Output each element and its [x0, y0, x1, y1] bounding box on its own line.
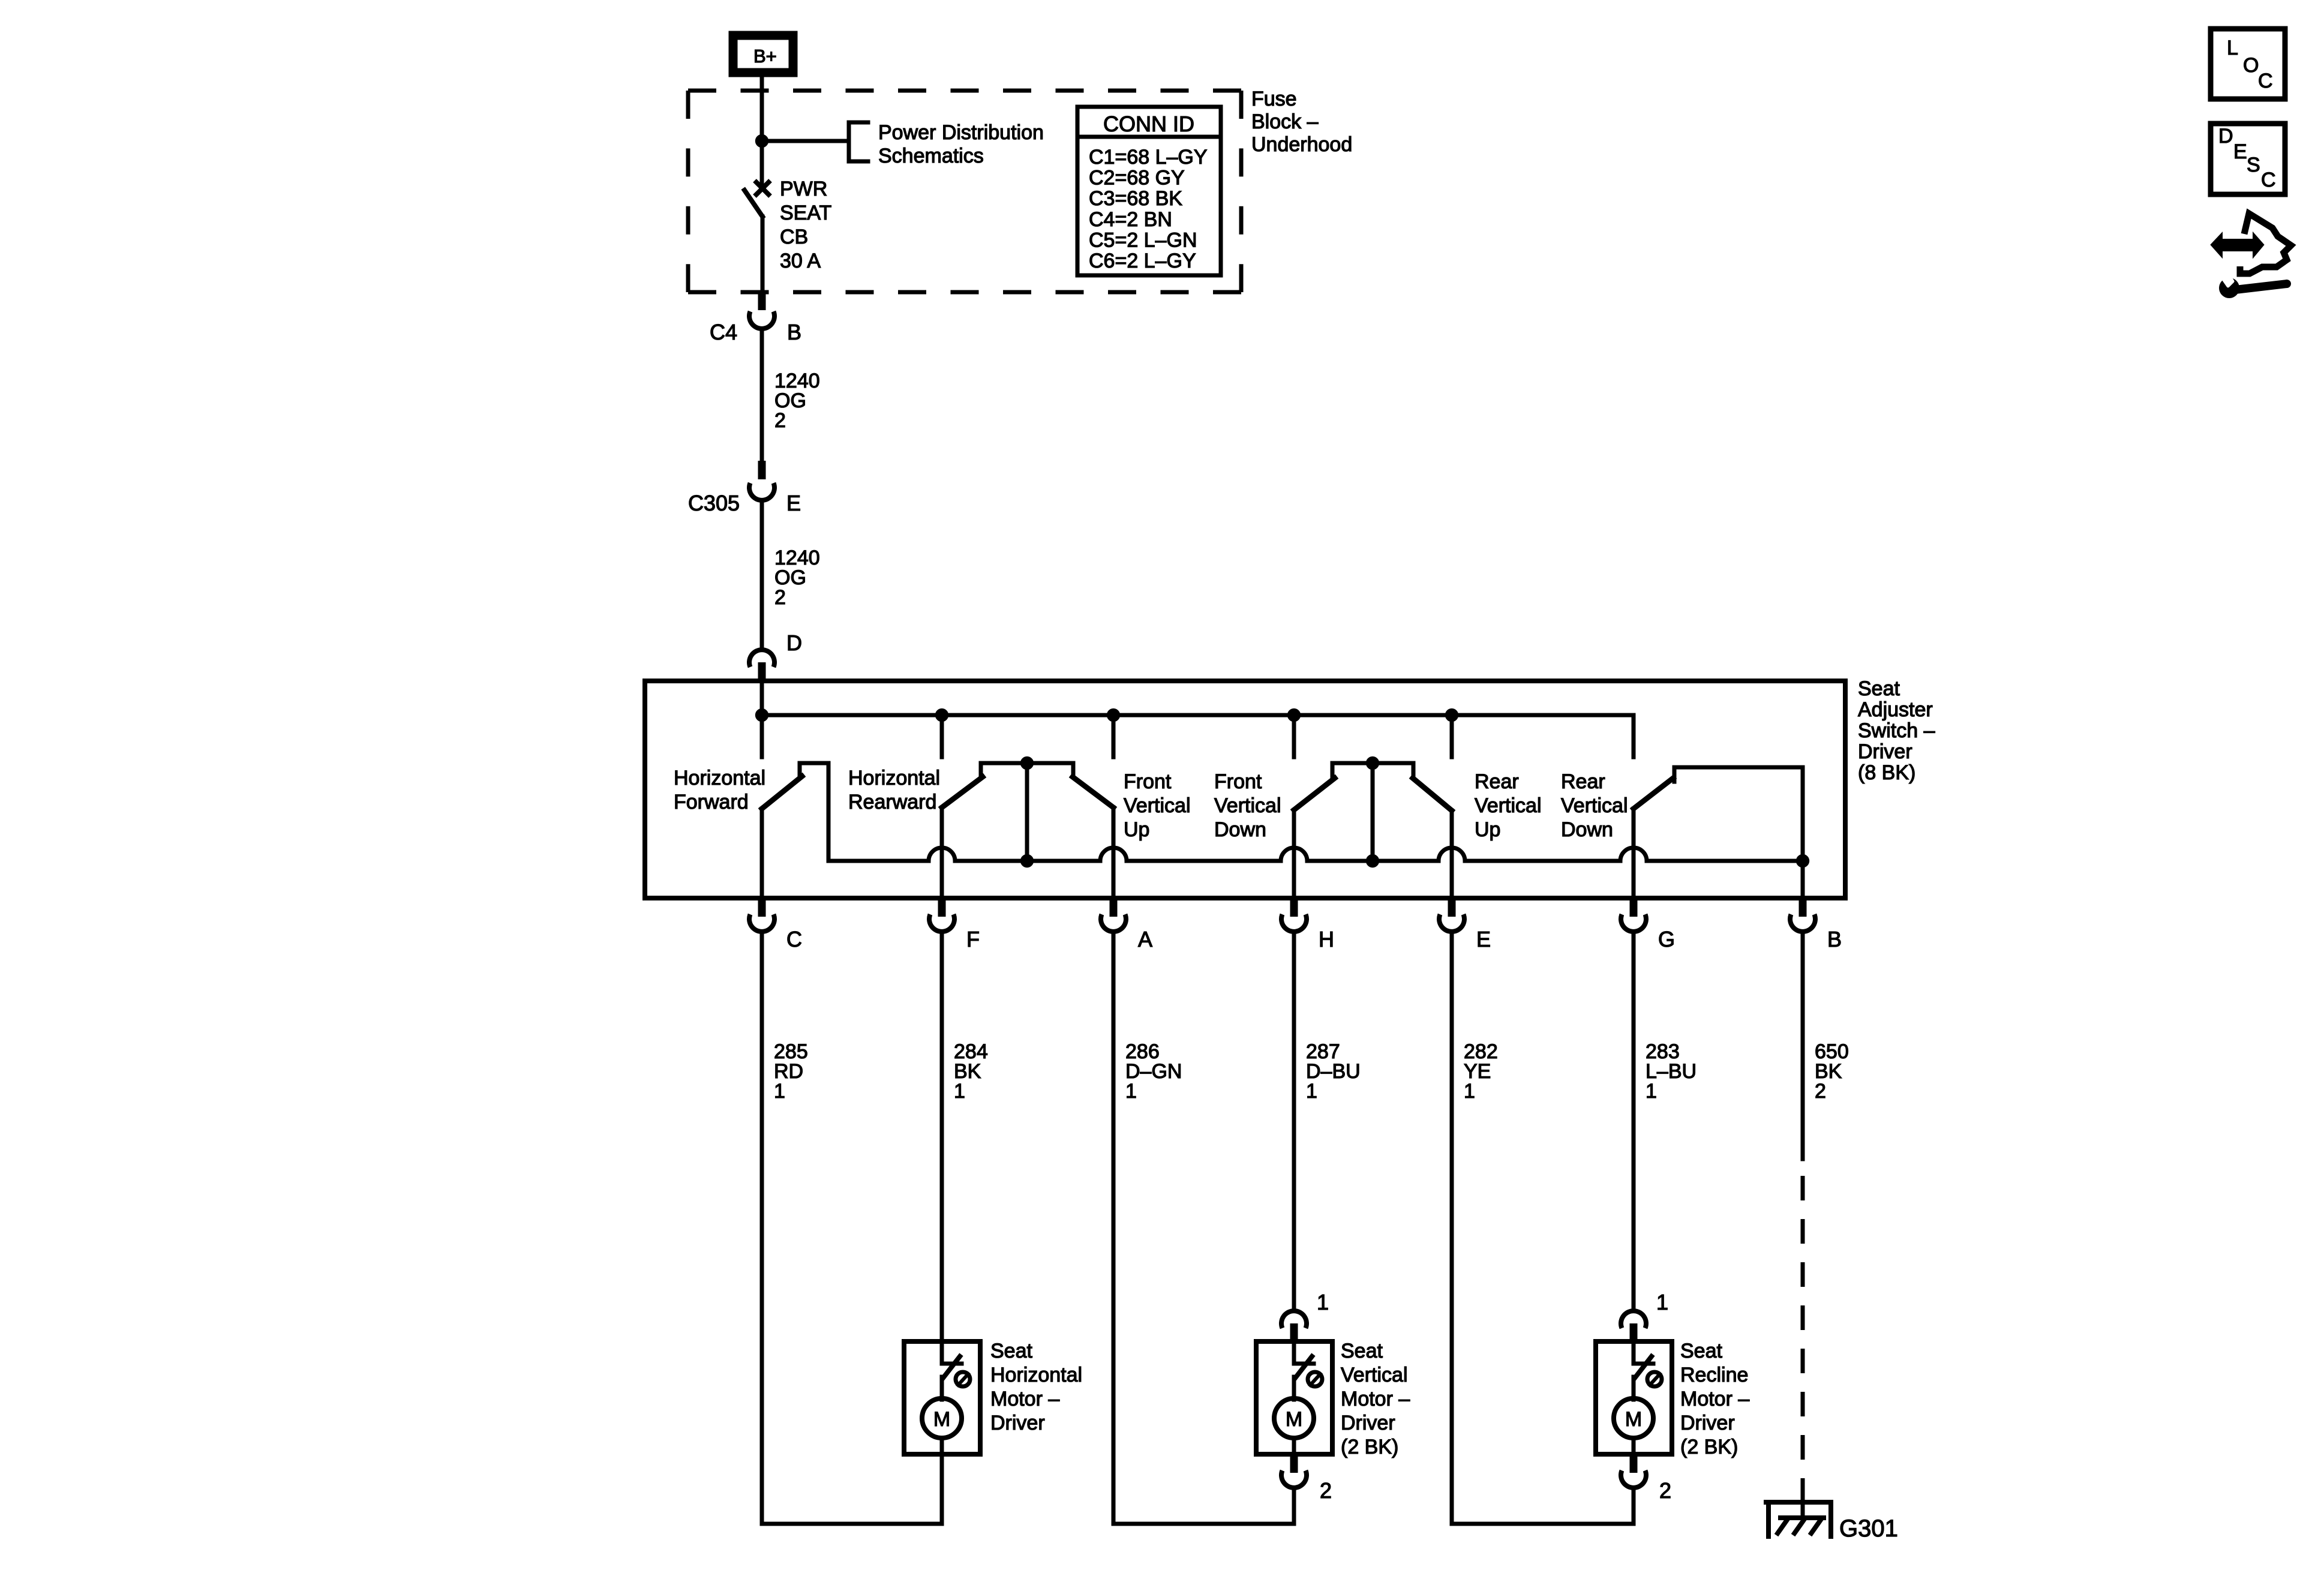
svg-text:Vertical: Vertical — [1341, 1364, 1408, 1386]
switch Horizontal Forward blade — [762, 776, 802, 809]
label Front Vertical Up — [1124, 770, 1191, 841]
wire 286 D-GN pin A down — [1113, 932, 1294, 1524]
svg-text:Horizontal: Horizontal — [848, 767, 940, 789]
svg-text:(2 BK): (2 BK) — [1680, 1436, 1738, 1458]
svg-text:C2=68 GY: C2=68 GY — [1089, 167, 1185, 190]
node pair2 gnd — [1366, 854, 1379, 867]
svg-text:CONN ID: CONN ID — [1103, 112, 1194, 136]
node bus at A — [1107, 709, 1120, 722]
svg-text:C1=68 L–GY: C1=68 L–GY — [1089, 146, 1208, 169]
node pair1 top — [1020, 757, 1034, 770]
svg-text:2: 2 — [774, 586, 786, 609]
svg-text:Driver: Driver — [1680, 1412, 1735, 1434]
svg-text:Power Distribution: Power Distribution — [878, 121, 1044, 144]
svg-text:1: 1 — [1464, 1080, 1475, 1103]
connector 2 motor seat recline motor — [1621, 1454, 1646, 1488]
connector C305 pin E — [749, 461, 774, 500]
wire gnd bus to pin B — [1801, 861, 1805, 898]
ground return bus — [828, 848, 1803, 861]
node bus at C — [755, 709, 768, 722]
connector pin F of switch — [929, 898, 954, 932]
svg-text:Down: Down — [1214, 818, 1266, 841]
svg-text:C: C — [786, 927, 802, 951]
svg-text:Seat: Seat — [1858, 677, 1900, 700]
svg-text:M: M — [1286, 1408, 1302, 1431]
svg-text:Up: Up — [1124, 818, 1149, 841]
wire B+ to junction — [760, 77, 764, 141]
svg-text:Switch –: Switch – — [1858, 719, 1935, 742]
switch1 contact — [800, 763, 828, 861]
svg-text:2: 2 — [1815, 1080, 1826, 1103]
svg-text:Driver: Driver — [1858, 740, 1912, 763]
svg-text:1: 1 — [954, 1080, 965, 1103]
svg-text:PWR: PWR — [780, 178, 827, 200]
B+ stub sw1 — [760, 715, 764, 757]
wire 1240 OG seg2 — [760, 500, 764, 649]
wire 650 BK pin B solid — [1801, 932, 1805, 1159]
node gnd bus to pin B — [1796, 854, 1809, 867]
wire motor1 return — [940, 1454, 944, 1524]
icon adjust-direction with wrench — [2212, 214, 2291, 298]
svg-text:Vertical: Vertical — [1214, 794, 1281, 817]
icon LOC box — [2211, 29, 2285, 99]
switch Horizontal Rearward blade — [942, 777, 983, 807]
svg-text:1: 1 — [1656, 1290, 1668, 1314]
motor box seat horizontal motor — [904, 1341, 980, 1454]
svg-text:SEAT: SEAT — [780, 202, 831, 224]
wire sw1 to pin C — [760, 809, 764, 898]
svg-text:C6=2 L–GY: C6=2 L–GY — [1089, 250, 1196, 272]
wire 287 D-BU pin H to conn — [1292, 932, 1296, 1308]
wire 282 YE pin E down — [1452, 932, 1634, 1524]
label pin C — [786, 927, 802, 951]
label pin E — [1476, 927, 1491, 951]
svg-text:Rear: Rear — [1475, 770, 1519, 793]
wire feed into box — [760, 681, 764, 715]
connector pin B of switch — [1790, 898, 1815, 932]
connector C4 pin B — [749, 292, 774, 329]
switch pair 2-3 contact bar — [981, 763, 1073, 861]
label wire 287 D–BU — [1306, 1040, 1361, 1103]
svg-text:E: E — [786, 491, 801, 515]
B+ stub sw2 — [940, 715, 944, 757]
svg-text:Vertical: Vertical — [1561, 794, 1628, 817]
motor breaker blade seat vertical motor — [1295, 1356, 1312, 1378]
svg-text:S: S — [2247, 154, 2260, 176]
svg-text:1: 1 — [1646, 1080, 1657, 1103]
svg-text:2: 2 — [774, 409, 786, 432]
svg-text:Adjuster: Adjuster — [1858, 698, 1933, 721]
svg-text:H: H — [1319, 927, 1334, 951]
svg-text:Seat: Seat — [990, 1340, 1032, 1362]
svg-text:Horizontal: Horizontal — [674, 767, 765, 789]
svg-text:Vertical: Vertical — [1475, 794, 1542, 817]
svg-text:Underhood: Underhood — [1251, 133, 1352, 156]
wire junction to CB contact — [760, 141, 764, 183]
svg-text:Fuse: Fuse — [1251, 88, 1297, 110]
svg-text:1: 1 — [1317, 1290, 1329, 1314]
label pin A — [1138, 927, 1152, 951]
svg-text:Block –: Block – — [1251, 110, 1319, 133]
wire sw2 to pin F — [940, 807, 944, 898]
svg-text:CB: CB — [780, 226, 808, 248]
seat adjuster switch box — [645, 681, 1845, 898]
svg-text:M: M — [933, 1408, 950, 1431]
connector pin G of switch — [1621, 898, 1646, 932]
motor box seat vertical motor — [1256, 1341, 1332, 1454]
motor internal wire mid seat recline motor — [1632, 1377, 1636, 1400]
svg-text:C5=2 L–GN: C5=2 L–GN — [1089, 229, 1197, 251]
label wire 286 D–GN — [1125, 1040, 1182, 1103]
node bus at H — [1287, 709, 1301, 722]
wire 285 RD pin C down — [762, 932, 942, 1524]
label pin H — [1319, 927, 1334, 951]
svg-text:D: D — [786, 631, 802, 655]
motor internal wire bottom seat horizontal motor — [940, 1438, 944, 1454]
connector 1 motor seat vertical motor — [1281, 1311, 1307, 1341]
svg-text:C4: C4 — [710, 320, 737, 344]
svg-text:2: 2 — [1320, 1478, 1332, 1503]
label PWR SEAT CB 30 A — [780, 178, 831, 272]
motor M circle seat recline motor — [1614, 1398, 1653, 1438]
motor internal wire bottom seat vertical motor — [1292, 1438, 1296, 1454]
motor thermal element seat recline motor — [1647, 1372, 1662, 1386]
svg-text:Seat: Seat — [1680, 1340, 1722, 1362]
label C305 — [688, 491, 740, 515]
label wire 282 YE — [1464, 1040, 1498, 1103]
motor box seat recline motor — [1596, 1341, 1672, 1454]
motor internal wire mid seat vertical motor — [1292, 1377, 1296, 1400]
icon DESC box — [2211, 124, 2285, 194]
svg-text:1: 1 — [1125, 1080, 1137, 1103]
svg-text:L: L — [2227, 37, 2238, 59]
off-page bracket Power Distribution — [849, 122, 868, 161]
ground G301 — [1766, 1488, 1831, 1536]
svg-text:Front: Front — [1124, 770, 1172, 793]
conn table rows — [1089, 146, 1208, 272]
node bus at F — [935, 709, 948, 722]
label pin 2 seat vertical motor — [1320, 1478, 1332, 1503]
svg-text:Forward: Forward — [674, 791, 749, 813]
B+ bus in switch — [762, 715, 1634, 757]
label wire 285 RD — [774, 1040, 808, 1103]
label pin 2 seat recline motor — [1659, 1478, 1671, 1503]
svg-text:Motor –: Motor – — [1341, 1388, 1410, 1410]
motor breaker blade seat horizontal motor — [943, 1356, 960, 1378]
node pair1 gnd — [1020, 854, 1034, 867]
label pin 1 seat recline motor — [1656, 1290, 1668, 1314]
connector pin A of switch — [1101, 898, 1126, 932]
wire sw5 to pin E — [1450, 810, 1454, 898]
B+ stub sw4 — [1292, 715, 1296, 757]
label pin 1 seat vertical motor — [1317, 1290, 1329, 1314]
svg-text:(8 BK): (8 BK) — [1858, 761, 1915, 784]
label pin B — [1827, 927, 1842, 951]
label Seat Adjuster Switch Driver — [1858, 677, 1935, 784]
B+ stub sw5 — [1450, 715, 1454, 757]
motor thermal element seat horizontal motor — [956, 1372, 970, 1386]
motor internal wire top seat horizontal motor — [942, 1341, 962, 1364]
svg-text:Driver: Driver — [1341, 1412, 1395, 1434]
circuit breaker PWR SEAT CB 30 A — [744, 181, 770, 292]
motor label seat horizontal motor — [990, 1340, 1082, 1434]
svg-text:D: D — [2218, 125, 2233, 148]
label Fuse Block Underhood — [1251, 88, 1352, 156]
svg-text:2: 2 — [1659, 1478, 1671, 1503]
connector pin H of switch — [1281, 898, 1307, 932]
svg-text:Up: Up — [1475, 818, 1500, 841]
svg-text:E: E — [1476, 927, 1491, 951]
label wire 284 BK — [954, 1040, 988, 1103]
svg-text:M: M — [1625, 1408, 1642, 1431]
wire 283 L-BU pin G to conn — [1632, 932, 1636, 1308]
svg-text:B+: B+ — [753, 46, 777, 67]
svg-text:Vertical: Vertical — [1124, 794, 1191, 817]
motor label seat vertical motor — [1341, 1340, 1410, 1458]
wire sw3 to pin A — [1112, 807, 1116, 898]
motor internal wire top seat vertical motor — [1294, 1341, 1314, 1364]
label Front Vertical Down — [1214, 770, 1281, 841]
wire 1240 OG seg1 — [760, 329, 764, 461]
svg-text:(2 BK): (2 BK) — [1341, 1436, 1398, 1458]
wire tap to power distribution — [762, 139, 849, 143]
connector 1 motor seat recline motor — [1621, 1311, 1646, 1341]
connector table CONN ID — [1077, 107, 1221, 275]
switch Front Vertical Up blade — [1073, 777, 1113, 807]
svg-text:Motor –: Motor – — [1680, 1388, 1749, 1410]
label wire 283 L–BU — [1646, 1040, 1697, 1103]
svg-text:1: 1 — [774, 1080, 785, 1103]
switch Front Vertical Down blade — [1294, 778, 1335, 810]
motor thermal element seat vertical motor — [1308, 1372, 1322, 1386]
motor breaker blade seat recline motor — [1635, 1356, 1652, 1378]
svg-text:Schematics: Schematics — [878, 145, 984, 167]
connector pin C of switch — [749, 898, 774, 932]
svg-text:B: B — [1827, 927, 1842, 951]
power node B+ — [733, 35, 793, 73]
switch6 contact bar — [1674, 767, 1803, 861]
wire 650 BK dashed to ground — [1801, 1176, 1805, 1503]
label D pin — [786, 631, 802, 655]
svg-text:G301: G301 — [1839, 1515, 1898, 1542]
wire sw4 to pin H — [1292, 810, 1296, 898]
node junction to CB — [755, 134, 768, 148]
label pin G — [1658, 927, 1675, 951]
label G301 — [1839, 1515, 1898, 1542]
motor M circle seat horizontal motor — [922, 1398, 962, 1438]
node bus at E — [1445, 709, 1458, 722]
motor internal wire mid seat horizontal motor — [940, 1377, 944, 1400]
svg-text:Rear: Rear — [1561, 770, 1605, 793]
label B pin of C4 — [787, 320, 801, 344]
svg-text:A: A — [1138, 927, 1152, 951]
B+ stub sw3 — [1112, 715, 1116, 757]
svg-text:C305: C305 — [688, 491, 740, 515]
svg-text:Front: Front — [1214, 770, 1262, 793]
svg-text:Recline: Recline — [1680, 1364, 1748, 1386]
switch Rear Vertical Up blade — [1413, 778, 1452, 810]
svg-text:C3=68 BK: C3=68 BK — [1089, 187, 1182, 210]
connector D seat adjuster switch — [749, 650, 774, 681]
label Power Distribution Schematics — [878, 121, 1044, 167]
label wire 1240 OG 2 (2) — [774, 547, 820, 609]
svg-text:Motor –: Motor – — [990, 1388, 1059, 1410]
label E pin of C305 — [786, 491, 801, 515]
wire below conn 2 seat vertical motor — [1292, 1488, 1296, 1524]
svg-text:C: C — [2258, 70, 2273, 92]
svg-text:Horizontal: Horizontal — [990, 1364, 1082, 1386]
svg-text:G: G — [1658, 927, 1675, 951]
label C4 — [710, 320, 737, 344]
svg-text:C4=2 BN: C4=2 BN — [1089, 208, 1172, 231]
motor internal wire bottom seat recline motor — [1632, 1438, 1636, 1454]
label wire 1240 OG 2 (1) — [774, 370, 820, 432]
label wire 650 BK — [1815, 1040, 1849, 1103]
wire sw6 to pin G — [1632, 809, 1636, 898]
svg-text:30 A: 30 A — [780, 250, 821, 272]
svg-text:Driver: Driver — [990, 1412, 1045, 1434]
svg-text:F: F — [966, 927, 980, 951]
label Rear Vertical Up — [1475, 770, 1542, 841]
connector 2 motor seat vertical motor — [1281, 1454, 1307, 1488]
motor label seat recline motor — [1680, 1340, 1749, 1458]
wire 284 BK pin F to motor — [940, 932, 944, 1341]
svg-text:Seat: Seat — [1341, 1340, 1383, 1362]
label Rear Vertical Down — [1561, 770, 1628, 841]
switch Rear Vertical Down blade — [1634, 778, 1673, 809]
svg-text:Rearward: Rearward — [848, 791, 936, 813]
motor M circle seat vertical motor — [1274, 1398, 1314, 1438]
svg-text:C: C — [2261, 169, 2276, 191]
connector pin E of switch — [1439, 898, 1464, 932]
svg-text:E: E — [2233, 140, 2247, 163]
label Horizontal Rearward — [848, 767, 940, 813]
node pair2 top — [1366, 757, 1379, 770]
motor internal wire top seat recline motor — [1634, 1341, 1653, 1364]
label Horizontal Forward — [674, 767, 765, 813]
svg-text:1: 1 — [1306, 1080, 1317, 1103]
wire below conn 2 seat recline motor — [1632, 1488, 1636, 1524]
svg-text:Down: Down — [1561, 818, 1613, 841]
fuse block dashed border — [688, 91, 1241, 292]
svg-text:O: O — [2243, 54, 2259, 77]
svg-text:B: B — [787, 320, 801, 344]
label pin F — [966, 927, 980, 951]
switch pair 4-5 contact bar — [1332, 763, 1413, 861]
